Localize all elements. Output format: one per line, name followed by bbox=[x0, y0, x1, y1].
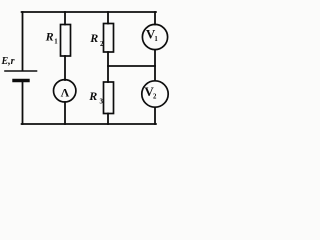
svg-text:3: 3 bbox=[100, 99, 104, 106]
wire left upper bbox=[22, 12, 24, 71]
wire V1 top lead bbox=[154, 12, 156, 25]
svg-text:1: 1 bbox=[154, 36, 158, 43]
wire V2 bottom lead bbox=[154, 107, 156, 124]
svg-text:R: R bbox=[88, 89, 97, 103]
ammeter A body bbox=[53, 80, 75, 102]
wire bottom bbox=[22, 123, 156, 125]
resistor R3 body bbox=[104, 82, 114, 114]
wire R2 top lead bbox=[107, 12, 109, 24]
resistor R1 body bbox=[61, 25, 71, 57]
svg-text:R: R bbox=[45, 30, 54, 44]
wire middle node M to node N bbox=[108, 65, 155, 67]
svg-text:2: 2 bbox=[153, 93, 157, 100]
svg-text:1: 1 bbox=[54, 39, 58, 46]
battery E,r short plate bbox=[14, 79, 28, 82]
battery E,r long plate bbox=[5, 70, 37, 72]
wire left lower bbox=[22, 81, 24, 124]
wire top bbox=[22, 11, 156, 13]
wire R1 top lead bbox=[64, 12, 66, 25]
voltmeter V2 body bbox=[142, 81, 168, 107]
resistor R2 body bbox=[104, 24, 114, 53]
wire ammeter bottom lead bbox=[64, 102, 66, 124]
wire R2 to node M bbox=[107, 52, 109, 82]
svg-text:E,r: E,r bbox=[1, 56, 15, 67]
svg-text:Λ: Λ bbox=[61, 85, 70, 99]
wire V1 to V2 bbox=[154, 50, 156, 81]
wire R3 bottom lead bbox=[107, 114, 109, 125]
svg-text:R: R bbox=[89, 31, 98, 45]
voltmeter V1 body bbox=[142, 24, 167, 49]
wire R1 to ammeter bbox=[64, 56, 66, 80]
svg-text:2: 2 bbox=[100, 41, 104, 48]
